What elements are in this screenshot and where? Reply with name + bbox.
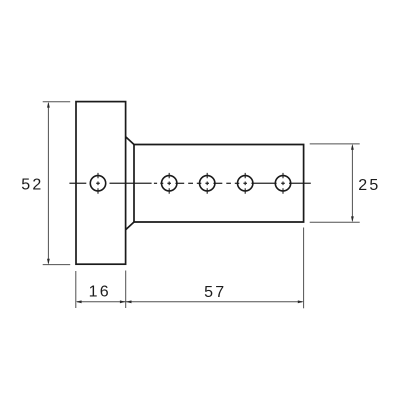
svg-text:52: 52 <box>21 177 43 194</box>
svg-text:25: 25 <box>358 177 380 194</box>
svg-text:57: 57 <box>204 284 226 301</box>
svg-text:16: 16 <box>89 283 111 300</box>
